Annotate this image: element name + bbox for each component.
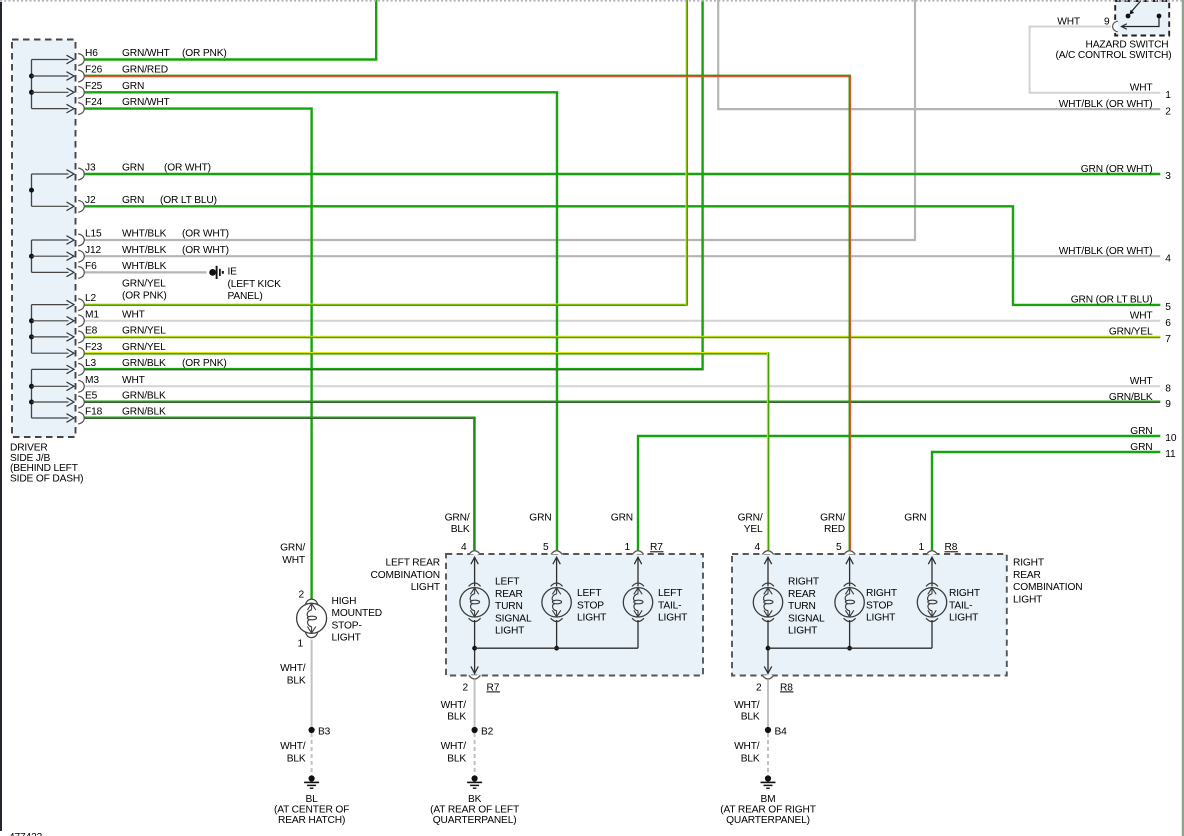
- hazard switch labels: [1055, 17, 1171, 61]
- ground BM: [761, 775, 776, 788]
- left box R7 underlines: [487, 552, 664, 692]
- svg-text:LEFT: LEFT: [658, 588, 682, 599]
- svg-text:WHT/: WHT/: [441, 700, 467, 711]
- svg-text:GRN/: GRN/: [280, 543, 305, 554]
- svg-text:E8: E8: [85, 326, 98, 337]
- svg-text:GRN/: GRN/: [738, 513, 763, 524]
- hazard switch box: [1115, 1, 1169, 36]
- svg-text:(OR WHT): (OR WHT): [164, 163, 211, 174]
- right combination light labels: [720, 513, 1082, 827]
- svg-text:WHT/: WHT/: [734, 741, 760, 752]
- svg-text:GRN/: GRN/: [445, 513, 470, 524]
- svg-text:F26: F26: [85, 65, 103, 76]
- svg-text:BK: BK: [468, 794, 482, 805]
- hazard switch contacts: [1121, 1, 1161, 30]
- svg-text:(A/C CONTROL SWITCH): (A/C CONTROL SWITCH): [1055, 50, 1171, 61]
- svg-text:IE: IE: [228, 267, 238, 278]
- svg-text:COMBINATION: COMBINATION: [371, 570, 440, 581]
- svg-text:5: 5: [1165, 302, 1171, 313]
- svg-text:QUARTERPANEL): QUARTERPANEL): [726, 815, 810, 826]
- svg-text:10: 10: [1165, 433, 1177, 444]
- svg-text:HIGH: HIGH: [332, 596, 357, 607]
- svg-text:WHT/BLK (OR WHT): WHT/BLK (OR WHT): [1059, 99, 1153, 110]
- page right border: [1182, 0, 1184, 836]
- left box pin 4 socket: [469, 551, 480, 555]
- svg-text:TURN: TURN: [495, 601, 523, 612]
- svg-text:GRN: GRN: [1130, 426, 1152, 437]
- figure number: [9, 832, 43, 836]
- driver side J/B connector box: [12, 40, 76, 438]
- svg-text:(OR PNK): (OR PNK): [182, 48, 227, 59]
- svg-text:GRN: GRN: [1130, 442, 1152, 453]
- right box R8 underlines: [780, 552, 958, 692]
- svg-text:LIGHT: LIGHT: [495, 626, 524, 637]
- wire terminal 11 GRN to right tail-light: [932, 452, 1160, 550]
- svg-text:2: 2: [298, 589, 304, 600]
- svg-text:4: 4: [461, 542, 467, 553]
- svg-text:2: 2: [1165, 106, 1171, 117]
- svg-text:(AT CENTER OF: (AT CENTER OF: [274, 805, 349, 816]
- svg-text:WHT/BLK: WHT/BLK: [122, 245, 167, 256]
- wire F26 GRN/RED to right stop light: [84, 75, 851, 550]
- svg-text:REAR HATCH): REAR HATCH): [278, 815, 345, 826]
- svg-text:(OR WHT): (OR WHT): [182, 245, 229, 256]
- svg-text:F23: F23: [85, 342, 103, 353]
- svg-text:8: 8: [1165, 384, 1171, 395]
- wire E5 GRN/BLK to terminal 9: [84, 401, 1160, 402]
- svg-text:H6: H6: [85, 48, 98, 59]
- J/B internal junction bus: [29, 60, 34, 419]
- left combination light labels: [371, 513, 688, 827]
- svg-text:LIGHT: LIGHT: [658, 613, 687, 624]
- left tail-light bulb: [623, 557, 652, 648]
- left box pin 1 socket: [632, 551, 643, 555]
- wire F24 GRN/WHT to high mounted stop-light: [84, 109, 312, 600]
- left stop light bulb: [542, 557, 571, 650]
- svg-text:(OR WHT): (OR WHT): [182, 229, 229, 240]
- svg-text:11: 11: [1165, 449, 1176, 460]
- svg-text:2: 2: [462, 682, 468, 693]
- right rear combination light box: [732, 554, 1007, 676]
- svg-text:3: 3: [1165, 171, 1171, 182]
- svg-text:(AT REAR OF LEFT: (AT REAR OF LEFT: [430, 805, 519, 816]
- svg-text:LEFT: LEFT: [495, 577, 519, 588]
- wire F18 GRN/BLK to left turn signal: [84, 417, 476, 550]
- left box pin 5 socket: [551, 551, 562, 555]
- driver side J/B label: [10, 443, 83, 485]
- svg-text:WHT: WHT: [282, 555, 305, 566]
- svg-text:STOP: STOP: [866, 600, 893, 611]
- svg-text:RIGHT: RIGHT: [1013, 558, 1044, 569]
- svg-text:4: 4: [1165, 253, 1171, 264]
- svg-text:B3: B3: [318, 726, 331, 737]
- left box junction wire: [475, 647, 638, 649]
- wire L3 GRN/BLK: [84, 0, 704, 370]
- svg-text:LEFT REAR: LEFT REAR: [385, 558, 440, 569]
- svg-text:5: 5: [543, 542, 549, 553]
- svg-text:GRN/: GRN/: [820, 513, 845, 524]
- svg-text:REAR: REAR: [495, 589, 523, 600]
- svg-text:WHT/: WHT/: [280, 663, 306, 674]
- svg-text:RED: RED: [824, 524, 845, 535]
- wire M1 WHT to terminal 6: [84, 320, 1160, 322]
- right box pin 2 socket: [762, 675, 773, 679]
- right box pin 5 socket: [844, 551, 855, 555]
- svg-text:TURN: TURN: [788, 601, 816, 612]
- svg-text:WHT/BLK: WHT/BLK: [122, 261, 167, 272]
- svg-text:STOP-: STOP-: [332, 620, 362, 631]
- svg-text:WHT/: WHT/: [441, 741, 467, 752]
- svg-text:J12: J12: [85, 245, 101, 256]
- hazard switch pin 9 socket: [1113, 21, 1118, 32]
- svg-text:WHT: WHT: [1130, 311, 1153, 322]
- right tail-light bulb: [917, 557, 946, 648]
- svg-text:F18: F18: [85, 407, 103, 418]
- svg-text:STOP: STOP: [577, 600, 604, 611]
- svg-text:GRN: GRN: [611, 513, 633, 524]
- svg-text:COMBINATION: COMBINATION: [1013, 582, 1082, 593]
- svg-text:2: 2: [756, 682, 762, 693]
- svg-text:RIGHT: RIGHT: [788, 577, 819, 588]
- svg-text:SIGNAL: SIGNAL: [788, 613, 825, 624]
- svg-text:WHT/: WHT/: [280, 741, 306, 752]
- wire terminal 2 WHT/BLK: [718, 0, 1160, 109]
- svg-text:B2: B2: [481, 726, 494, 737]
- svg-text:L2: L2: [85, 293, 97, 304]
- svg-text:(AT REAR OF RIGHT: (AT REAR OF RIGHT: [720, 805, 816, 816]
- svg-text:GRN/WHT: GRN/WHT: [122, 97, 170, 108]
- wire F23 GRN/YEL to right turn signal: [84, 352, 769, 550]
- J/B pin sockets: [78, 54, 84, 425]
- svg-text:GRN: GRN: [122, 81, 144, 92]
- svg-text:GRN/BLK: GRN/BLK: [122, 358, 166, 369]
- svg-text:9: 9: [1165, 399, 1171, 410]
- wire J3 GRN to terminal 3: [84, 173, 1160, 175]
- svg-text:GRN/BLK: GRN/BLK: [1109, 392, 1153, 403]
- svg-text:J3: J3: [85, 163, 96, 174]
- svg-text:BL: BL: [306, 794, 319, 805]
- svg-text:(OR PNK): (OR PNK): [182, 358, 227, 369]
- svg-text:M3: M3: [85, 375, 99, 386]
- svg-text:GRN/YEL: GRN/YEL: [122, 342, 166, 353]
- svg-text:6: 6: [1165, 318, 1171, 329]
- IE label: [228, 267, 282, 303]
- J/B row labels: [85, 48, 229, 418]
- wire F6 WHT/BLK to IE: [84, 271, 207, 273]
- high mounted stop-light labels: [274, 543, 382, 827]
- right stop light bulb: [835, 557, 864, 650]
- svg-text:PANEL): PANEL): [228, 291, 263, 302]
- svg-text:SIGNAL: SIGNAL: [495, 613, 532, 624]
- right box junction wire: [768, 647, 932, 649]
- svg-text:7: 7: [1165, 334, 1171, 345]
- svg-text:LIGHT: LIGHT: [332, 633, 361, 644]
- svg-text:GRN/BLK: GRN/BLK: [122, 407, 166, 418]
- svg-text:WHT: WHT: [1057, 17, 1080, 28]
- svg-text:F24: F24: [85, 97, 103, 108]
- svg-text:F25: F25: [85, 81, 103, 92]
- high mounted stop-light bulb: [297, 603, 327, 633]
- svg-text:WHT: WHT: [1130, 376, 1153, 387]
- wire high stop-light WHT/BLK to ground: [309, 640, 315, 776]
- svg-text:BM: BM: [761, 794, 776, 805]
- svg-text:YEL: YEL: [744, 524, 763, 535]
- svg-text:(OR LT BLU): (OR LT BLU): [160, 195, 217, 206]
- wire J2 GRN to terminal 5: [84, 206, 1160, 305]
- svg-text:LIGHT: LIGHT: [866, 613, 895, 624]
- svg-text:WHT/BLK (OR WHT): WHT/BLK (OR WHT): [1059, 246, 1153, 257]
- svg-text:RIGHT: RIGHT: [866, 588, 897, 599]
- svg-text:TAIL-: TAIL-: [658, 600, 681, 611]
- svg-text:GRN: GRN: [122, 163, 144, 174]
- wire E8 GRN/YEL to terminal 7: [84, 336, 1160, 337]
- ground BL: [304, 775, 319, 788]
- J/B pin arrows: [32, 55, 75, 422]
- wire M3 WHT to terminal 8: [84, 385, 1160, 387]
- svg-text:GRN: GRN: [122, 195, 144, 206]
- high mounted stop-light pin 2 socket: [305, 599, 318, 605]
- svg-text:F6: F6: [85, 261, 97, 272]
- svg-text:LIGHT: LIGHT: [411, 582, 440, 593]
- svg-text:WHT: WHT: [122, 309, 145, 320]
- svg-text:BLK: BLK: [447, 712, 466, 723]
- svg-text:(OR PNK): (OR PNK): [122, 291, 167, 302]
- svg-text:MOUNTED: MOUNTED: [332, 608, 382, 619]
- wire H6 GRN/WHT: [84, 0, 376, 60]
- svg-text:GRN/YEL: GRN/YEL: [1109, 327, 1153, 338]
- IE connector (left kick panel): [209, 266, 224, 279]
- svg-text:LIGHT: LIGHT: [949, 613, 978, 624]
- svg-text:LIGHT: LIGHT: [1013, 595, 1042, 606]
- svg-text:WHT: WHT: [122, 375, 145, 386]
- terminal number labels: [1059, 83, 1177, 461]
- svg-text:RIGHT: RIGHT: [949, 588, 980, 599]
- svg-text:GRN/WHT: GRN/WHT: [122, 48, 170, 59]
- right box pin 1 socket: [926, 551, 937, 555]
- wire terminal 10 GRN to left tail-light: [638, 436, 1160, 550]
- svg-text:WHT/: WHT/: [734, 700, 760, 711]
- svg-text:1: 1: [1165, 90, 1171, 101]
- svg-text:BLK: BLK: [451, 524, 470, 535]
- right rear turn signal light bulb: [753, 557, 782, 673]
- wire L15 WHT/BLK: [84, 0, 915, 240]
- svg-text:BLK: BLK: [741, 712, 760, 723]
- svg-text:1: 1: [918, 542, 924, 553]
- svg-text:BLK: BLK: [741, 754, 760, 765]
- svg-text:SIDE OF DASH): SIDE OF DASH): [10, 473, 83, 484]
- wire J12 WHT/BLK to terminal 4: [84, 255, 1160, 257]
- left rear combination light box: [446, 554, 703, 676]
- svg-text:477423: 477423: [9, 832, 43, 836]
- svg-text:GRN: GRN: [904, 513, 926, 524]
- right box pin 4 socket: [762, 551, 773, 555]
- svg-text:WHT: WHT: [1130, 83, 1153, 94]
- svg-text:GRN (OR WHT): GRN (OR WHT): [1081, 164, 1153, 175]
- left box pin 2 socket: [469, 675, 480, 679]
- svg-text:9: 9: [1104, 17, 1110, 28]
- svg-text:GRN/YEL: GRN/YEL: [122, 326, 166, 337]
- wire L2 GRN/YEL: [84, 0, 687, 305]
- svg-text:GRN (OR LT BLU): GRN (OR LT BLU): [1071, 295, 1153, 306]
- wire F25 GRN: [84, 92, 557, 550]
- svg-text:REAR: REAR: [1013, 570, 1041, 581]
- svg-text:B4: B4: [775, 726, 788, 737]
- svg-text:GRN: GRN: [529, 513, 551, 524]
- svg-text:GRN/RED: GRN/RED: [122, 65, 168, 76]
- wire hazard switch WHT to terminal 1: [1030, 27, 1161, 93]
- svg-text:LIGHT: LIGHT: [788, 626, 817, 637]
- svg-text:TAIL-: TAIL-: [949, 600, 972, 611]
- page left border: [0, 2, 2, 831]
- svg-text:M1: M1: [85, 309, 99, 320]
- svg-text:L3: L3: [85, 358, 97, 369]
- svg-text:BLK: BLK: [287, 754, 306, 765]
- svg-text:E5: E5: [85, 391, 98, 402]
- svg-text:5: 5: [836, 542, 842, 553]
- svg-text:(LEFT KICK: (LEFT KICK: [228, 279, 282, 290]
- svg-text:L15: L15: [85, 229, 102, 240]
- svg-text:1: 1: [297, 638, 303, 649]
- wire right box WHT/BLK to ground: [765, 680, 771, 776]
- high mounted stop-light pin 1 socket: [305, 632, 318, 638]
- svg-text:LIGHT: LIGHT: [577, 613, 606, 624]
- svg-text:BLK: BLK: [287, 676, 306, 687]
- svg-text:J2: J2: [85, 195, 96, 206]
- svg-text:BLK: BLK: [447, 754, 466, 765]
- svg-text:GRN/BLK: GRN/BLK: [122, 391, 166, 402]
- svg-text:QUARTERPANEL): QUARTERPANEL): [433, 815, 517, 826]
- wire left box WHT/BLK to ground: [472, 680, 478, 776]
- svg-text:4: 4: [754, 542, 760, 553]
- svg-text:LEFT: LEFT: [577, 588, 601, 599]
- svg-text:REAR: REAR: [788, 589, 816, 600]
- svg-text:1: 1: [624, 542, 630, 553]
- svg-text:GRN/YEL: GRN/YEL: [122, 279, 166, 290]
- page top border: [0, 0, 1184, 2]
- left rear turn signal light bulb: [460, 557, 489, 673]
- ground BK: [467, 775, 482, 788]
- svg-text:WHT/BLK: WHT/BLK: [122, 229, 167, 240]
